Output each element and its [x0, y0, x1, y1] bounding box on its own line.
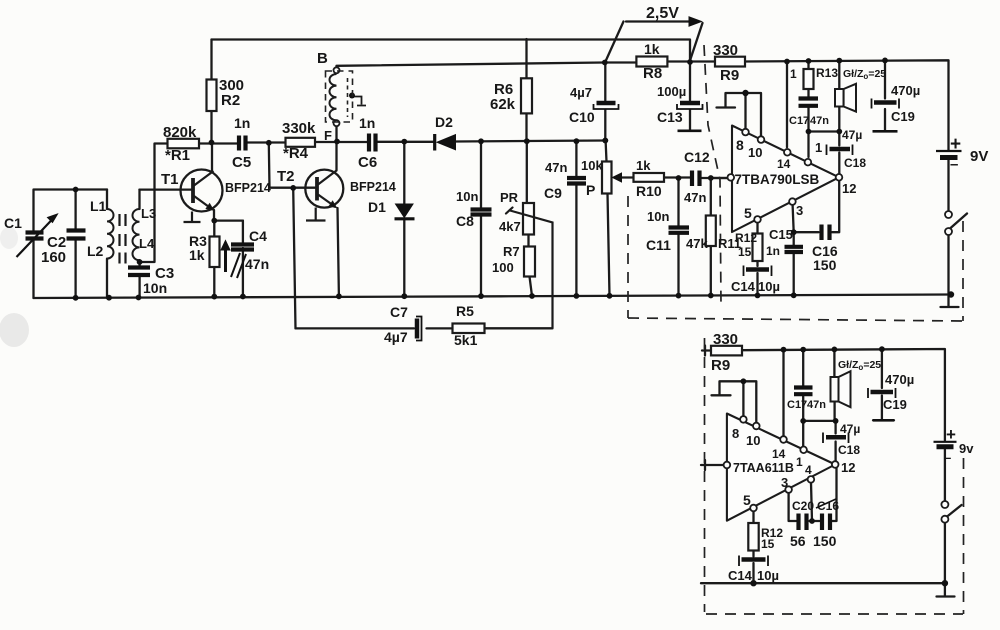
svg-text:C14: C14	[728, 568, 753, 583]
svg-text:R13: R13	[816, 66, 838, 80]
svg-text:C4: C4	[249, 228, 267, 244]
svg-text:10n: 10n	[456, 189, 478, 204]
svg-text:C20: C20	[792, 499, 814, 513]
svg-text:L1: L1	[90, 198, 107, 214]
svg-text:PR: PR	[500, 190, 519, 205]
svg-text:L4: L4	[139, 236, 155, 251]
svg-text:C6: C6	[358, 154, 377, 171]
svg-text:3: 3	[781, 475, 788, 490]
svg-text:100: 100	[492, 260, 514, 275]
svg-text:56: 56	[790, 533, 806, 549]
svg-text:D2: D2	[435, 114, 453, 130]
svg-text:L3: L3	[141, 206, 156, 221]
svg-text:P: P	[586, 182, 595, 198]
svg-text:7TAA611B: 7TAA611B	[733, 461, 794, 475]
svg-text:150: 150	[813, 533, 837, 549]
svg-text:L2: L2	[87, 243, 104, 259]
svg-text:47n: 47n	[810, 115, 829, 127]
svg-text:10n: 10n	[143, 280, 167, 296]
svg-text:R12: R12	[735, 231, 757, 245]
svg-text:C13: C13	[657, 109, 683, 125]
svg-text:8: 8	[732, 426, 739, 441]
svg-text:R7: R7	[503, 244, 520, 259]
svg-text:C10: C10	[569, 109, 595, 125]
svg-text:14: 14	[772, 447, 786, 461]
svg-text:10k: 10k	[581, 158, 603, 173]
svg-text:160: 160	[41, 249, 66, 266]
svg-text:1k: 1k	[189, 247, 205, 263]
svg-text:C17: C17	[787, 399, 807, 411]
svg-text:1k: 1k	[644, 41, 660, 57]
svg-text:1: 1	[790, 67, 797, 81]
svg-text:BFP214: BFP214	[350, 180, 396, 194]
svg-text:1: 1	[796, 455, 803, 469]
svg-text:5: 5	[743, 492, 751, 508]
svg-text:C11: C11	[646, 237, 671, 253]
svg-text:4k7: 4k7	[499, 219, 521, 234]
svg-text:330k: 330k	[282, 120, 316, 137]
svg-text:BFP214: BFP214	[225, 181, 271, 195]
svg-text:+: +	[946, 425, 956, 444]
svg-text:C7: C7	[390, 304, 408, 320]
svg-text:T2: T2	[277, 168, 295, 185]
svg-text:10: 10	[748, 145, 762, 160]
svg-text:10µ: 10µ	[758, 279, 780, 294]
svg-text:*R4: *R4	[283, 145, 309, 162]
svg-text:820k: 820k	[163, 124, 197, 141]
svg-text:+: +	[950, 134, 961, 155]
svg-text:B: B	[317, 50, 328, 67]
svg-text:8: 8	[736, 137, 744, 153]
svg-text:1k: 1k	[636, 158, 651, 173]
svg-text:470µ: 470µ	[885, 372, 914, 387]
svg-text:R8: R8	[643, 65, 662, 82]
svg-text:330: 330	[713, 331, 738, 348]
svg-text:14: 14	[777, 157, 791, 171]
svg-text:10n: 10n	[647, 209, 669, 224]
svg-text:C18: C18	[838, 443, 860, 457]
svg-text:D1: D1	[368, 199, 386, 215]
svg-text:4µ7: 4µ7	[570, 85, 592, 100]
svg-text:9V: 9V	[970, 148, 988, 165]
svg-text:47n: 47n	[245, 256, 269, 272]
svg-text:47k: 47k	[686, 236, 708, 251]
svg-text:R5: R5	[456, 303, 474, 319]
svg-text:C19: C19	[883, 397, 907, 412]
svg-text:4: 4	[805, 463, 812, 477]
svg-text:100µ: 100µ	[657, 84, 686, 99]
svg-text:10µ: 10µ	[757, 568, 779, 583]
svg-text:–: –	[950, 156, 958, 173]
svg-text:1n: 1n	[234, 115, 250, 131]
svg-text:10: 10	[746, 433, 760, 448]
svg-text:4µ7: 4µ7	[384, 329, 408, 345]
svg-text:C12: C12	[684, 149, 710, 165]
svg-text:C17: C17	[789, 115, 809, 127]
svg-text:47µ: 47µ	[842, 128, 862, 142]
svg-text:C14: C14	[731, 279, 756, 294]
svg-text:F: F	[324, 128, 332, 143]
svg-text:C8: C8	[456, 213, 474, 229]
svg-text:47n: 47n	[807, 399, 826, 411]
svg-text:47n: 47n	[684, 190, 706, 205]
svg-text:12: 12	[842, 181, 856, 196]
svg-text:R10: R10	[636, 183, 662, 199]
svg-text:1n: 1n	[359, 115, 375, 131]
svg-text:1: 1	[815, 140, 822, 155]
svg-text:330: 330	[713, 42, 738, 59]
svg-text:–: –	[944, 450, 951, 465]
svg-text:47n: 47n	[545, 160, 567, 175]
svg-text:R9: R9	[720, 67, 739, 84]
svg-text:T1: T1	[161, 171, 179, 188]
svg-text:2,5V: 2,5V	[646, 5, 679, 22]
svg-text:15: 15	[738, 245, 752, 259]
svg-text:62k: 62k	[490, 96, 516, 113]
svg-text:12: 12	[841, 460, 855, 475]
svg-text:1n: 1n	[766, 244, 780, 258]
svg-text:3: 3	[796, 203, 803, 218]
svg-text:R9: R9	[711, 357, 730, 374]
svg-text:5: 5	[744, 205, 752, 221]
svg-text:9v: 9v	[959, 441, 974, 456]
svg-text:470µ: 470µ	[891, 83, 920, 98]
svg-text:150: 150	[813, 257, 837, 273]
svg-text:C19: C19	[891, 109, 915, 124]
svg-text:15: 15	[761, 537, 775, 551]
svg-text:C9: C9	[544, 185, 562, 201]
svg-text:*R1: *R1	[165, 147, 190, 164]
svg-text:R2: R2	[221, 92, 240, 109]
svg-text:C15: C15	[769, 227, 793, 242]
svg-text:C18: C18	[844, 156, 866, 170]
svg-text:C1: C1	[4, 215, 22, 231]
svg-text:47µ: 47µ	[840, 422, 860, 436]
svg-text:7TBA790LSB: 7TBA790LSB	[735, 172, 820, 187]
svg-text:C5: C5	[232, 154, 251, 171]
svg-text:5k1: 5k1	[454, 332, 478, 348]
